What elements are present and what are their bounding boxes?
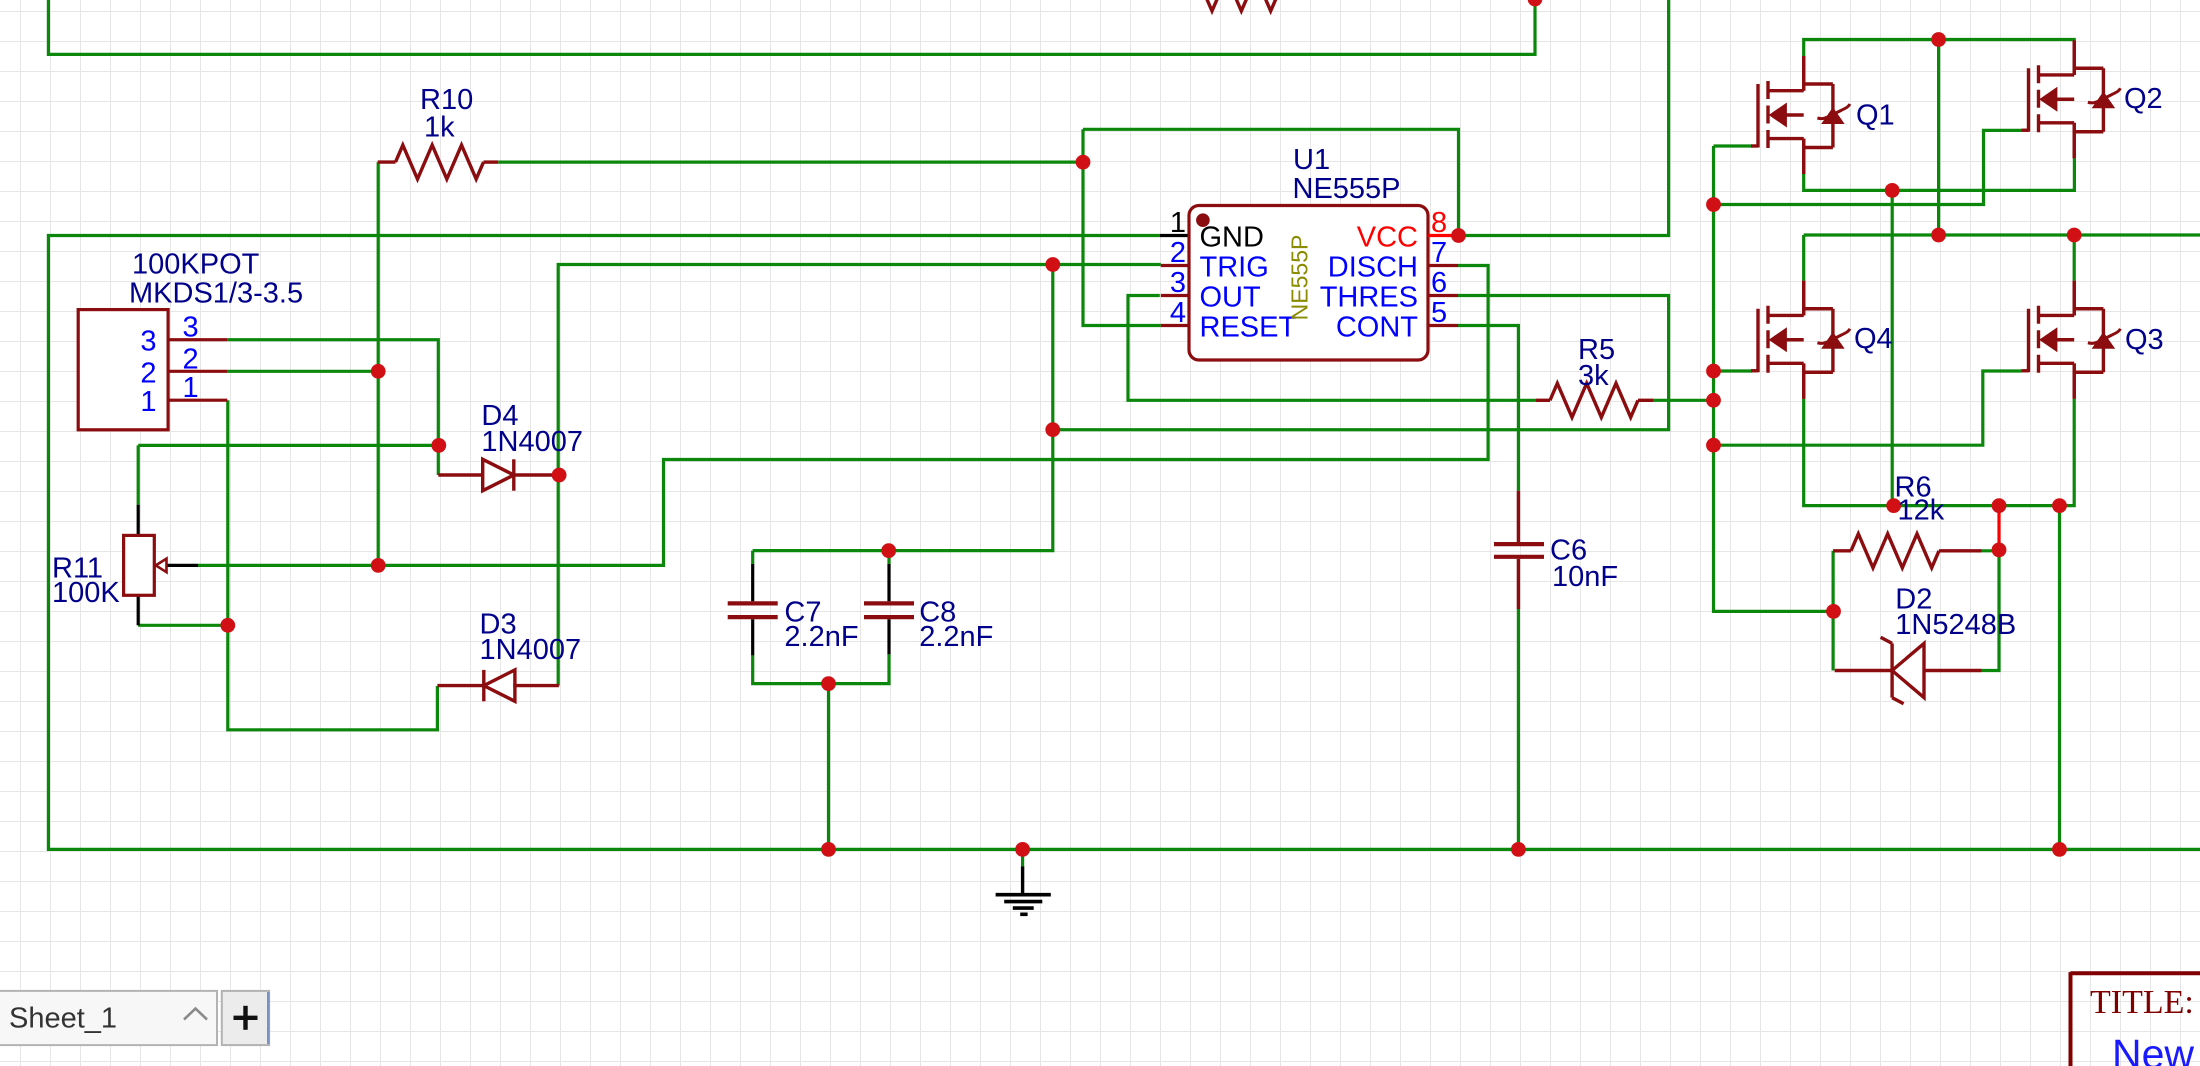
- svg-text:NE555P: NE555P: [1293, 173, 1401, 205]
- svg-text:RESET: RESET: [1200, 312, 1297, 344]
- svg-text:1: 1: [183, 372, 199, 404]
- svg-text:100K: 100K: [52, 577, 120, 609]
- svg-text:Q1: Q1: [1856, 100, 1895, 132]
- svg-text:1: 1: [140, 386, 156, 418]
- svg-text:DISCH: DISCH: [1328, 252, 1418, 284]
- svg-text:6: 6: [1431, 267, 1447, 299]
- svg-text:7: 7: [1431, 237, 1447, 269]
- svg-text:3: 3: [140, 326, 156, 358]
- svg-text:2: 2: [1170, 237, 1186, 269]
- svg-text:10nF: 10nF: [1552, 561, 1618, 593]
- svg-text:8: 8: [1431, 207, 1447, 239]
- svg-text:3: 3: [183, 312, 199, 344]
- svg-text:GND: GND: [1200, 222, 1264, 254]
- svg-text:100KPOT: 100KPOT: [132, 248, 260, 280]
- svg-text:1k: 1k: [424, 112, 455, 144]
- svg-text:1: 1: [1170, 207, 1186, 239]
- svg-text:TITLE:: TITLE:: [2090, 984, 2194, 1021]
- svg-text:2: 2: [183, 343, 199, 375]
- svg-text:Sheet_1: Sheet_1: [9, 1003, 117, 1035]
- svg-text:1N5248B: 1N5248B: [1895, 609, 2016, 641]
- svg-text:3k: 3k: [1578, 360, 1609, 392]
- svg-text:2.2nF: 2.2nF: [784, 621, 858, 653]
- svg-text:4: 4: [1170, 297, 1186, 329]
- svg-text:1N4007: 1N4007: [480, 634, 582, 666]
- svg-text:1N4007: 1N4007: [481, 426, 583, 458]
- svg-text:THRES: THRES: [1320, 282, 1418, 314]
- svg-text:2.2nF: 2.2nF: [919, 621, 993, 653]
- svg-text:Q3: Q3: [2125, 324, 2164, 356]
- svg-text:CONT: CONT: [1336, 312, 1418, 344]
- svg-text:3: 3: [1170, 267, 1186, 299]
- svg-text:New: New: [2112, 1031, 2194, 1066]
- svg-text:VCC: VCC: [1357, 222, 1418, 254]
- svg-text:2: 2: [140, 357, 156, 389]
- svg-text:12k: 12k: [1898, 495, 1945, 527]
- svg-text:NE555P: NE555P: [1287, 235, 1313, 321]
- svg-text:OUT: OUT: [1200, 282, 1262, 314]
- svg-text:Q4: Q4: [1854, 323, 1893, 355]
- svg-text:5: 5: [1431, 297, 1447, 329]
- svg-text:U1: U1: [1293, 144, 1330, 176]
- svg-text:Q2: Q2: [2124, 83, 2163, 115]
- svg-text:TRIG: TRIG: [1200, 252, 1269, 284]
- svg-text:MKDS1/3-3.5: MKDS1/3-3.5: [129, 278, 303, 310]
